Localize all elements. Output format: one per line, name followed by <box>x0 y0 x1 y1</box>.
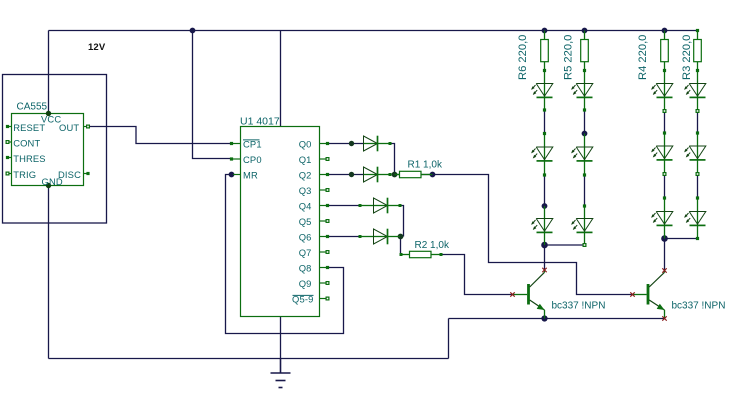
svg-text:bc337 !NPN: bc337 !NPN <box>672 301 726 312</box>
junction: MR pin <box>229 172 235 178</box>
svg-text:R1 1,0k: R1 1,0k <box>408 160 443 171</box>
wire: ground rail riser <box>448 319 450 359</box>
svg-text:CONT: CONT <box>13 138 40 149</box>
column green stubs at x=584.5 <box>584 31 586 246</box>
wire: Q2 to diode D2 anode <box>328 174 364 176</box>
resistor R4 <box>661 40 669 62</box>
LED D5 <box>531 84 553 98</box>
junction: Q1 emitter on rail <box>541 315 547 321</box>
svg-text:TRIG: TRIG <box>13 169 36 180</box>
pin D16 top <box>696 196 699 199</box>
pin 555 TRIG <box>6 172 9 175</box>
LED D6 <box>531 147 553 161</box>
junction: D4 cathode / R2 input <box>398 234 404 240</box>
svg-text:R6 220,0: R6 220,0 <box>517 35 529 80</box>
svg-text:U1 4017: U1 4017 <box>240 116 280 128</box>
555 pin stubs <box>7 127 89 174</box>
pin 555 DISC <box>86 172 89 175</box>
pin 555 THRES <box>6 156 9 159</box>
svg-text:R4 220,0: R4 220,0 <box>637 35 649 80</box>
pin D13 top <box>663 196 666 199</box>
LED D7 <box>531 219 553 233</box>
junction: D2 cathode / R1 input <box>392 172 398 178</box>
wire: Q6 to diode D4 anode <box>328 236 361 238</box>
svg-text:R3 220,0: R3 220,0 <box>681 35 693 80</box>
pin below R6 <box>543 69 546 72</box>
wire: Q0 to diode D1 anode <box>328 143 364 145</box>
pin CP1 <box>230 142 233 145</box>
LED D15 <box>684 146 706 160</box>
svg-text:Q8: Q8 <box>299 263 312 274</box>
transistor Q1 bc337 NPN <box>513 270 545 319</box>
overline Q5-9 <box>293 294 314 296</box>
wire: 12V supply top rail <box>49 30 698 32</box>
4017 pin stubs <box>233 144 327 299</box>
pin Q5-9 <box>326 297 329 300</box>
pin D12 top <box>663 131 666 134</box>
junction: Q2 net <box>349 172 354 177</box>
diode D2 <box>364 167 392 183</box>
svg-text:MR: MR <box>243 170 258 181</box>
pin D15 bottom (open) <box>696 173 699 176</box>
border box around 555 timer <box>3 75 107 224</box>
svg-text:R5 220,0: R5 220,0 <box>563 35 575 80</box>
svg-text:Q3: Q3 <box>299 185 312 196</box>
svg-text:RESET: RESET <box>13 122 45 133</box>
wire: column4 LED2-LED3 link <box>697 174 699 198</box>
svg-text:CA555: CA555 <box>17 102 48 113</box>
junction: Q0 net <box>349 141 354 146</box>
LED D13 <box>651 212 673 226</box>
column green stubs at x=664.5 <box>664 31 666 239</box>
wire: column3-column4 bottom link <box>665 238 698 240</box>
LED D14 <box>684 84 706 98</box>
wire: column2 LED1-LED2 link <box>584 110 586 134</box>
pin CP0 <box>230 157 233 160</box>
wire: D1 cathode down to R1 node <box>392 144 395 175</box>
IC U2 CA555 timer body <box>12 114 84 186</box>
wire: ground rail <box>49 358 449 360</box>
resistor R5 <box>581 40 589 62</box>
column green stubs at x=697.5 <box>697 31 699 239</box>
pin D14 bottom (open) <box>696 110 699 113</box>
pin D6 top <box>543 132 546 135</box>
pin D15 top <box>696 131 699 134</box>
svg-text:GND: GND <box>42 176 63 187</box>
pin Q4 <box>326 204 329 207</box>
pin Q2 <box>326 173 329 176</box>
svg-text:CP0: CP0 <box>243 154 262 165</box>
pin D6 bottom <box>543 173 546 176</box>
resistor R1 <box>395 171 433 177</box>
pin Q2 collector (x) <box>662 268 666 272</box>
svg-text:OUT: OUT <box>59 122 79 133</box>
junction: column3 bottom <box>661 235 668 242</box>
junction: column1 bottom <box>541 242 548 249</box>
junction: column1 LED3 top <box>542 203 548 209</box>
resistor R6 <box>541 40 549 62</box>
svg-text:Q2: Q2 <box>299 170 312 181</box>
pin Q2 base (x) <box>630 292 634 296</box>
pin Q9 <box>326 282 329 285</box>
ground symbol <box>271 359 291 388</box>
diode D4 <box>359 229 401 245</box>
wire: column3 LED1-LED2 link <box>664 111 666 133</box>
wire: column2 LED2-LED3 link <box>584 175 586 206</box>
wire: emitter rail <box>449 318 665 320</box>
wire: R1 output to transistor Q2 base <box>421 175 633 295</box>
pin 555 CONT <box>6 141 9 144</box>
pin Q1 collector (x) <box>542 268 546 272</box>
svg-text:12V: 12V <box>88 42 106 53</box>
wire: 555 GND down to ground rail <box>48 186 50 359</box>
pin D11 bottom (open) <box>663 110 666 113</box>
transistor Q2 bc337 NPN <box>632 270 665 319</box>
wire: 4017 GND pin to ground rail <box>280 317 282 359</box>
wire: D2 cathode to R1 <box>395 174 400 176</box>
LED D12 <box>651 146 673 160</box>
svg-text:R2 1,0k: R2 1,0k <box>415 240 450 251</box>
wire: 555 OUT to 4017 CP1 <box>88 127 232 144</box>
junction: top rail / column2 <box>582 28 588 34</box>
resistor R3 <box>694 40 702 62</box>
pin below R3 <box>696 69 699 72</box>
pin 555 OUT <box>87 125 90 128</box>
pin 555 GND dot <box>46 183 51 188</box>
LED D11 <box>651 84 673 98</box>
wire: D3 cathode down to R2 node <box>401 206 404 237</box>
wire: rail down to 4017 CP0 <box>193 31 232 159</box>
wire: R2 output to transistor Q1 base <box>441 255 513 295</box>
wire: Q4 to diode D3 anode <box>328 205 361 207</box>
wire: rail down to 4017 VCC top pin <box>280 31 282 127</box>
overline CP1 <box>243 139 260 141</box>
pin Q3 <box>326 189 329 192</box>
svg-text:Q5: Q5 <box>299 216 312 227</box>
pin Q8 <box>326 266 329 269</box>
junction: top rail / column1 <box>542 28 548 34</box>
wire: column1 LED1-LED2 link <box>544 110 546 134</box>
pin top rail end <box>696 29 699 32</box>
wire: Q8 feedback loop to MR <box>226 175 344 334</box>
svg-text:Q0: Q0 <box>299 139 312 150</box>
column green stubs at x=544.5 <box>544 31 546 246</box>
LED D10 <box>571 219 593 233</box>
wire: column1 LED2-LED3 link <box>544 175 546 206</box>
wire: column4 LED1-LED2 link <box>697 111 699 133</box>
wire: column1-column2 bottom link <box>545 244 585 246</box>
pin Q7 <box>326 251 329 254</box>
pin Q1 base (x) <box>510 292 514 296</box>
pin 555 RESET <box>6 125 9 128</box>
diode D3 <box>359 198 402 214</box>
LED D8 <box>571 84 593 98</box>
pin below R4 <box>663 69 666 72</box>
LED D16 <box>684 212 706 226</box>
pin D8 bottom <box>583 108 586 111</box>
svg-text:Q1: Q1 <box>299 154 312 165</box>
junction: R1 output <box>430 172 436 178</box>
LED D9 <box>571 147 593 161</box>
pin Q0 <box>326 142 329 145</box>
svg-text:THRES: THRES <box>13 153 46 164</box>
diode D1 <box>364 136 392 152</box>
wire: D4 node down to R2 <box>400 237 402 255</box>
svg-text:Q9: Q9 <box>299 278 312 289</box>
svg-text:bc337 !NPN: bc337 !NPN <box>552 301 606 312</box>
pin D5 bottom <box>543 108 546 111</box>
pin below R5 <box>583 69 586 72</box>
IC U1 4017 body <box>241 127 320 317</box>
pin Q1 <box>326 158 329 161</box>
pin Q2 emitter (x) <box>662 316 666 320</box>
pin D16 bottom <box>696 237 699 240</box>
pin Q5 <box>326 220 329 223</box>
pin D9 bottom <box>583 173 586 176</box>
pin D10 bottom (open) <box>583 244 586 247</box>
svg-text:Q6: Q6 <box>299 232 312 243</box>
wire: column1 bottom to Q1 collector <box>544 245 546 270</box>
pin D12 bottom (open) <box>663 173 666 176</box>
junction: top rail / CP0 drop <box>190 28 196 34</box>
pin 555 VCC dot <box>46 111 51 116</box>
junction: top rail / column3 <box>662 28 668 34</box>
wire: column3 LED2-LED3 link <box>664 174 666 198</box>
svg-text:Q4: Q4 <box>299 201 312 212</box>
svg-text:Q7: Q7 <box>299 247 312 258</box>
pin D10 top <box>583 204 586 207</box>
junction: column2 LED2 top <box>582 131 588 137</box>
wire: column3 bottom to Q2 collector <box>664 239 666 271</box>
wire: rail to 555 VCC <box>48 31 50 114</box>
pin Q6 <box>326 235 329 238</box>
resistor R2 <box>400 251 443 257</box>
